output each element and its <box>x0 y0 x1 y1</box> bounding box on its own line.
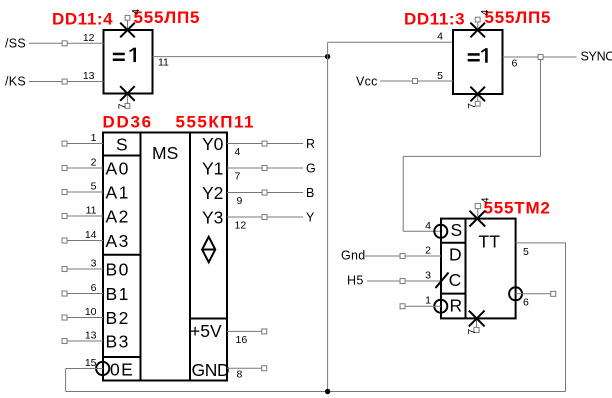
node: connector square on Vcc wire <box>413 79 418 84</box>
svg-text:3: 3 <box>91 258 97 270</box>
wire: vertical from junction down to bottom bus <box>327 42 329 391</box>
svg-text:1: 1 <box>91 132 97 144</box>
svg-text:11: 11 <box>158 57 169 69</box>
svg-text:2: 2 <box>425 245 431 257</box>
DD36 input pin 6 wire (B1) <box>62 293 103 295</box>
svg-text:A2: A2 <box>106 207 130 227</box>
connector square pin 5 <box>62 190 67 195</box>
svg-text:11: 11 <box>86 205 97 217</box>
svg-text:13: 13 <box>85 330 97 342</box>
node: junction dot on bottom bus <box>325 389 330 394</box>
svg-text:B0: B0 <box>106 260 130 280</box>
svg-text:A3: A3 <box>106 231 130 251</box>
svg-text:B2: B2 <box>106 308 130 328</box>
svg-text:D: D <box>449 245 462 265</box>
TT S box separator <box>441 242 466 244</box>
svg-text:+5V: +5V <box>190 321 222 341</box>
three-state diamond symbol <box>202 237 215 262</box>
svg-text:Vcc: Vcc <box>356 74 378 88</box>
connector square pin 1 <box>62 141 67 146</box>
connector square pin 14 <box>62 238 67 243</box>
no-connect cross top of TT <box>469 211 485 227</box>
svg-text:B1: B1 <box>106 284 130 304</box>
connector square pin 3 <box>62 267 67 272</box>
no-connect cross bottom of TT <box>469 311 485 327</box>
wire: H5 to C pin 3 <box>367 280 441 282</box>
DD36 output Y2 wire <box>227 192 303 194</box>
no-connect cross top of DD11:3 <box>470 23 485 38</box>
connector square pin 6 <box>551 291 556 296</box>
TT left column divider <box>465 219 467 319</box>
svg-text:/KS: /KS <box>5 75 26 89</box>
svg-text:7: 7 <box>466 329 478 335</box>
wire: /KS input to pin 13 <box>29 81 104 83</box>
DD36 left column divider <box>140 133 142 381</box>
power pin stub top of DD11:4 <box>127 20 129 30</box>
svg-text:4: 4 <box>479 9 491 15</box>
svg-text:7: 7 <box>466 103 478 109</box>
svg-text:6: 6 <box>91 282 97 294</box>
dynamic input slash on C <box>436 273 449 289</box>
DD36 right column divider <box>189 133 191 381</box>
DD36 S box separator <box>103 155 141 157</box>
wire: bottom bus <box>66 391 566 393</box>
svg-text:SYNC: SYNC <box>581 50 612 64</box>
svg-text:R: R <box>306 137 315 151</box>
svg-text:555КП11: 555КП11 <box>176 113 255 132</box>
svg-text:12: 12 <box>83 32 95 44</box>
svg-text:Y: Y <box>306 211 315 225</box>
wire: /Q output pin 6 <box>516 293 551 295</box>
connector square GND <box>262 366 267 371</box>
svg-text:8: 8 <box>237 369 243 381</box>
DD36 output Y3 wire <box>227 216 303 218</box>
connector square D <box>400 254 405 259</box>
svg-text:C: C <box>449 270 462 290</box>
svg-text:TT: TT <box>479 232 501 252</box>
svg-text:6: 6 <box>523 297 529 309</box>
DD36 input pin 3 wire (B0) <box>62 268 103 270</box>
wire: 0E to left <box>66 368 103 370</box>
TT S inversion bubble <box>434 225 447 238</box>
svg-text:14: 14 <box>85 229 97 241</box>
svg-text:S: S <box>116 135 128 155</box>
svg-text:/SS: /SS <box>5 37 26 51</box>
no-connect terminal square top of TT <box>475 203 480 208</box>
svg-text:7: 7 <box>116 103 128 109</box>
svg-text:5: 5 <box>437 70 443 82</box>
power pin stub top of DD11:3 <box>477 22 479 30</box>
svg-text:555ЛП5: 555ЛП5 <box>134 8 201 27</box>
svg-text:5: 5 <box>91 181 97 193</box>
DD36 0E inversion bubble <box>96 362 109 375</box>
svg-text:DD36: DD36 <box>103 113 153 132</box>
DD36 GND pin 8 wire <box>227 367 262 369</box>
svg-text:DD11:4: DD11:4 <box>52 10 113 29</box>
svg-text:Y0: Y0 <box>202 134 224 154</box>
svg-text:555ЛП5: 555ЛП5 <box>485 8 552 27</box>
connector square C <box>400 279 405 284</box>
flip-flop DD (555TM2) TT body <box>441 219 516 319</box>
gate DD11:3 function label =1 <box>468 48 488 63</box>
svg-text:B: B <box>306 186 315 200</box>
no-connect terminal square bottom of DD11:4 <box>125 104 130 109</box>
svg-text:A1: A1 <box>106 183 130 203</box>
gate DD11:4 function label =1 <box>113 48 136 62</box>
TT R box separator <box>441 293 466 295</box>
svg-text:12: 12 <box>235 220 247 232</box>
power pin stub bottom of DD11:4 <box>126 94 128 104</box>
wire: horizontal to the left toward TT S input <box>403 155 540 157</box>
svg-text:4: 4 <box>425 220 431 232</box>
wire: Gnd to D pin 2 <box>365 255 441 257</box>
svg-text:555ТМ2: 555ТМ2 <box>484 199 551 218</box>
wire: vertical down to S input row <box>402 156 404 231</box>
wire: /SS input to pin 12 <box>29 42 104 44</box>
wire: down right side to bottom bus <box>565 243 567 392</box>
no-connect terminal square bottom of TT <box>474 327 479 332</box>
svg-text:4: 4 <box>437 31 443 43</box>
DD36 output Y0 wire <box>227 143 303 145</box>
DD36 input pin 1 wire (S) <box>62 143 103 145</box>
wire: SYNC junction down <box>540 59 542 156</box>
svg-text:MS: MS <box>152 143 178 163</box>
connector square Y2 <box>262 190 267 195</box>
TT R inversion bubble <box>434 300 447 313</box>
svg-text:4: 4 <box>130 9 142 15</box>
svg-text:DD11:3: DD11:3 <box>404 10 465 29</box>
xor gate DD11:4 body <box>104 30 153 94</box>
wire: down to bottom bus <box>65 369 67 392</box>
svg-text:Gnd: Gnd <box>341 249 366 263</box>
svg-text:3: 3 <box>425 270 431 282</box>
svg-text:15: 15 <box>85 357 97 369</box>
svg-text:6: 6 <box>512 58 518 70</box>
node: connector square on /SS wire <box>62 41 67 46</box>
no-connect terminal square top of DD11:4 <box>125 15 130 20</box>
multiplexer DD36 body <box>103 133 227 381</box>
node: connector square on SYNC wire <box>538 55 543 60</box>
DD36 +5V box separator <box>190 318 227 320</box>
no-connect terminal square bottom of DD11:3 <box>475 101 480 106</box>
xor gate DD11:3 body <box>453 30 503 94</box>
DD36 output Y1 wire <box>227 167 303 169</box>
svg-text:13: 13 <box>83 70 95 82</box>
no-connect terminal square top of DD11:3 <box>475 17 480 22</box>
wire: DD11:3 pin 6 output to SYNC <box>503 56 577 58</box>
svg-text:Y3: Y3 <box>202 208 223 228</box>
DD36 A/B separator <box>103 254 141 256</box>
wire: TT Q output pin 5 <box>516 242 566 244</box>
DD36 +5V pin 16 wire <box>227 330 262 332</box>
svg-text:1: 1 <box>425 295 431 307</box>
svg-text:Y1: Y1 <box>202 159 223 179</box>
svg-text:B3: B3 <box>106 332 130 352</box>
power pin stub top of TT <box>477 209 479 219</box>
connector square pin 13 <box>62 339 67 344</box>
connector square Y3 <box>262 215 267 220</box>
svg-text:H5: H5 <box>347 274 364 288</box>
wire: into S bubble <box>403 230 441 232</box>
svg-text:7: 7 <box>235 171 241 183</box>
power pin stub bottom of TT <box>476 318 478 327</box>
svg-text:5: 5 <box>523 246 529 258</box>
connector square Y1 <box>262 166 267 171</box>
DD36 input pin 11 wire (A2) <box>62 215 103 217</box>
node: connector square on /KS wire <box>62 79 67 84</box>
DD36 input pin 14 wire (A3) <box>62 240 103 242</box>
svg-text:G: G <box>306 162 316 176</box>
connector square R <box>400 304 405 309</box>
connector square pin 10 <box>62 315 67 320</box>
connector square Y0 <box>262 141 267 146</box>
DD36 0E separator <box>103 356 141 358</box>
svg-text:4: 4 <box>235 146 241 158</box>
connector square +5V <box>262 329 267 334</box>
svg-text:R: R <box>450 295 463 315</box>
power pin stub bottom of DD11:3 <box>477 94 479 101</box>
svg-text:GND: GND <box>192 360 230 380</box>
svg-text:16: 16 <box>236 334 248 346</box>
wire: DD11:4 pin 11 output <box>153 56 328 58</box>
svg-text:Y2: Y2 <box>202 183 223 203</box>
no-connect cross top of DD11:4 <box>120 23 135 38</box>
DD36 input pin 10 wire (B2) <box>62 317 103 319</box>
connector square pin 2 <box>62 166 67 171</box>
DD36 input pin 5 wire (A1) <box>62 191 103 193</box>
no-connect cross bottom of DD11:4 <box>120 86 135 101</box>
svg-text:10: 10 <box>85 306 97 318</box>
svg-text:0E: 0E <box>110 360 134 380</box>
svg-text:2: 2 <box>91 157 97 169</box>
svg-text:4: 4 <box>479 197 491 203</box>
wire: R pin 1 <box>403 305 442 307</box>
svg-text:S: S <box>451 220 463 240</box>
DD36 input pin 13 wire (B3) <box>62 340 103 342</box>
TT /Q inversion bubble pin 6 <box>509 287 522 300</box>
wire: Vcc to pin 5 <box>380 80 453 82</box>
svg-text:9: 9 <box>237 195 243 207</box>
wire: junction up/right to DD11:3 pin 4 <box>328 41 453 43</box>
DD36 input pin 2 wire (A0) <box>62 167 103 169</box>
node: junction dot at gate output <box>325 54 330 59</box>
connector square pin 11 <box>62 214 67 219</box>
no-connect cross bottom of DD11:3 <box>470 87 485 102</box>
connector square pin 6 <box>62 291 67 296</box>
svg-text:A0: A0 <box>106 159 130 179</box>
